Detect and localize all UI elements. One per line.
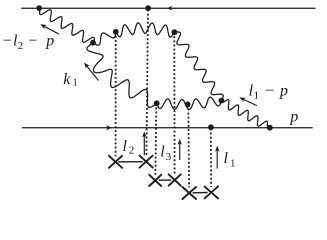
arrowhead -l2-p	[40, 24, 46, 29]
svg-text:1: 1	[72, 77, 78, 89]
arrowhead l1	[215, 146, 219, 152]
svg-text:2: 2	[18, 40, 24, 52]
vertex dot H	[267, 125, 273, 131]
label l1	[224, 150, 236, 169]
svg-text:p: p	[45, 33, 54, 50]
label k1	[63, 71, 78, 89]
vertex dot E	[219, 98, 225, 104]
vertex dot A	[36, 5, 42, 11]
svg-text:l: l	[160, 144, 165, 161]
label -l2-p	[3, 33, 55, 52]
label l1-p	[249, 83, 288, 102]
cross source 3L	[182, 187, 196, 199]
cross source 1L	[109, 156, 122, 168]
gluon W3 (k1): B down to F	[87, 43, 157, 108]
dotted line D5: G to cross 3L	[187, 104, 190, 187]
bottom line arrow (right)	[106, 125, 112, 130]
arrowhead l2	[142, 132, 146, 138]
svg-text:3: 3	[166, 151, 172, 163]
arrowhead l3	[178, 139, 182, 145]
gluon W2 segment D to E	[174, 32, 223, 101]
svg-text:p: p	[289, 108, 298, 125]
svg-text:−: −	[3, 33, 12, 50]
link line pair 2	[159, 179, 172, 181]
bottom fermion line	[22, 127, 312, 129]
svg-text:1: 1	[230, 157, 236, 169]
momentum arrow l2 (vertical)	[143, 136, 145, 156]
svg-text:−: −	[28, 33, 37, 50]
momentum arrow k1	[87, 66, 99, 80]
dotted line D1: C to cross 1L	[115, 32, 117, 156]
arrowhead k1	[84, 63, 90, 69]
momentum arrow l1 (vertical)	[216, 151, 218, 169]
svg-text:1: 1	[254, 89, 260, 101]
svg-text:k: k	[63, 71, 71, 88]
vertex dot D	[172, 29, 178, 35]
dotted line D4: D to cross 2R	[173, 32, 175, 174]
cross source 2R	[169, 174, 181, 185]
gluon W5: E down to bottom vertex H	[221, 100, 269, 128]
label l2	[123, 138, 135, 157]
svg-text:p: p	[279, 83, 288, 100]
gluon W2 arc C to D	[116, 23, 175, 37]
cross source 3R	[205, 186, 219, 198]
dotted line D3: F to cross 2L	[154, 103, 157, 175]
momentum arrow l1-p	[244, 99, 257, 105]
svg-text:l: l	[224, 150, 229, 167]
gluon W4: F through G to E	[157, 97, 222, 109]
cross source 1R	[140, 156, 153, 168]
vertex dot G	[185, 102, 191, 108]
label l3	[160, 144, 172, 163]
label p (bottom right)	[289, 108, 298, 125]
arrowhead l1-p	[239, 97, 245, 102]
vertex dot T2	[145, 5, 151, 11]
gluon W1: top vertex A to vertex B	[40, 6, 95, 42]
vertex dot P1	[208, 124, 214, 130]
link line pair 1	[118, 161, 143, 163]
momentum arrow l3 (vertical)	[179, 143, 181, 160]
gluon W2 segment B to C	[93, 32, 116, 45]
svg-text:l: l	[123, 138, 128, 155]
vertex dot C	[113, 29, 119, 35]
svg-text:2: 2	[129, 145, 135, 157]
link line pair 3	[193, 192, 208, 194]
top fermion line	[22, 7, 315, 9]
top line arrow (left)	[167, 6, 172, 10]
vertex dot F	[154, 100, 160, 106]
svg-text:−: −	[265, 83, 274, 100]
dotted line D6: bottom vertex P1 to cross 3R	[210, 129, 212, 187]
dotted line D2: top vertex to cross 1R	[146, 10, 148, 157]
vertex dot B	[90, 40, 96, 46]
momentum arrow -l2-p	[43, 26, 59, 34]
cross source 2L	[149, 175, 161, 186]
